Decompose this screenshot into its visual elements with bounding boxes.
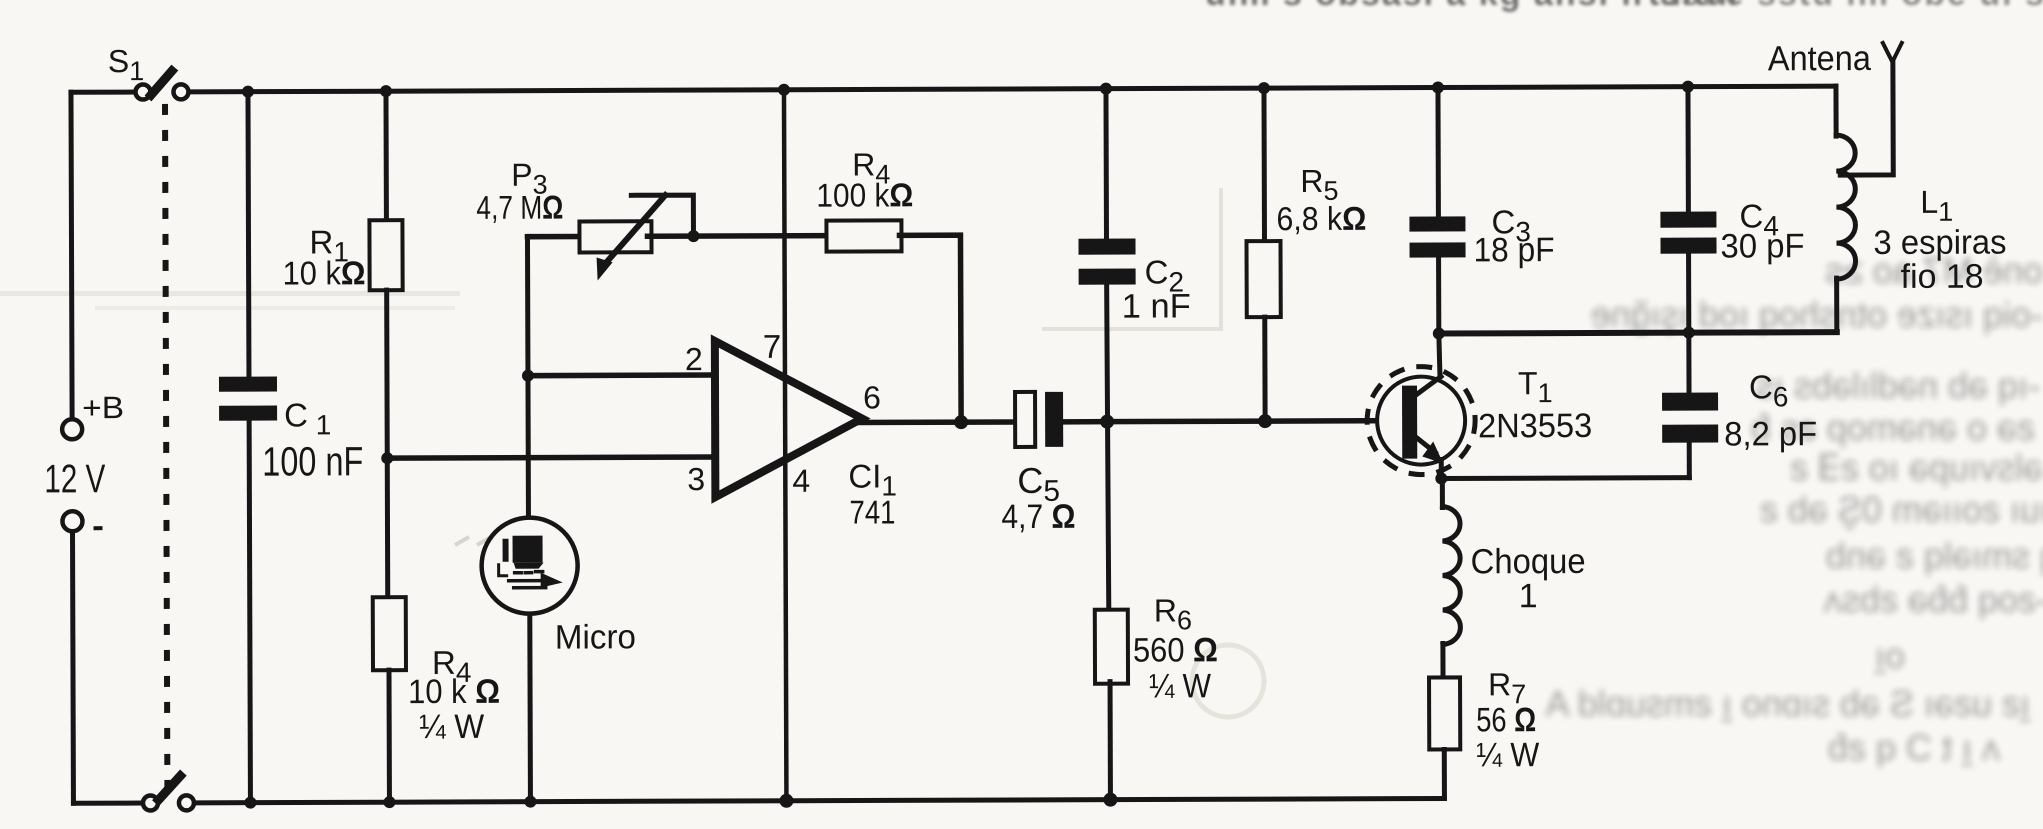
wire C3 top <box>1435 88 1440 217</box>
wire pin2 input <box>528 372 715 378</box>
svg-text:30 pF: 30 pF <box>1720 227 1804 265</box>
svg-text:C 1: C 1 <box>284 396 331 440</box>
wire C4 bottom to node <box>1686 254 1691 333</box>
svg-text:6: 6 <box>863 379 881 415</box>
svg-text:4,7 Ω: 4,7 Ω <box>1001 498 1075 536</box>
resistor R5 <box>1246 241 1280 317</box>
svg-text:560 Ω: 560 Ω <box>1133 631 1218 669</box>
potentiometer P3 arrow <box>596 195 665 280</box>
svg-text:Choque: Choque <box>1471 542 1586 581</box>
faint circle scribble <box>1192 645 1264 717</box>
svg-text:100 kΩ: 100 kΩ <box>816 176 913 213</box>
svg-text:L1: L1 <box>1920 184 1953 227</box>
wire P3 row segment a <box>527 234 583 240</box>
faint box bleed middle <box>455 188 1221 545</box>
node dot P3 wiper <box>687 230 699 242</box>
wire top rail left segment <box>71 90 135 95</box>
potentiometer P3 body <box>579 221 651 252</box>
capacitor C6 <box>1662 393 1718 443</box>
wire bottom rail left <box>73 801 141 806</box>
microphone icon <box>499 536 563 588</box>
svg-text:1: 1 <box>1519 577 1538 615</box>
wire micro bottom <box>527 615 533 802</box>
wire node to C6 <box>1686 333 1691 393</box>
wire R1 branch top <box>383 91 388 220</box>
transistor T1 emitter lead <box>1415 437 1435 453</box>
svg-text:Micro: Micro <box>555 618 636 656</box>
svg-text:7: 7 <box>763 328 781 365</box>
dashed gang line S1 <box>165 104 167 788</box>
svg-text:100 nF: 100 nF <box>262 438 363 484</box>
svg-text:3: 3 <box>687 461 705 497</box>
resistor R7 <box>1429 677 1460 749</box>
svg-text:10 k Ω: 10 k Ω <box>408 673 500 711</box>
svg-text:1 nF: 1 nF <box>1122 287 1191 325</box>
wire minus lead down <box>70 531 76 803</box>
svg-text:R6: R6 <box>1154 592 1192 635</box>
wire tank rail y338 <box>1439 332 1837 333</box>
svg-text:56 Ω: 56 Ω <box>1476 701 1536 739</box>
svg-text:C6: C6 <box>1749 368 1789 412</box>
terminal +B <box>62 419 82 439</box>
wire pin7/pin4 vertical <box>784 90 786 801</box>
wire R1 to R4 <box>387 290 388 597</box>
node dot output R5 <box>1258 414 1272 428</box>
svg-text:3 espiras: 3 espiras <box>1873 224 2006 262</box>
wire R4 bottom <box>386 670 391 802</box>
op-amp CI1 741 <box>715 341 863 498</box>
svg-text:+B: +B <box>82 390 124 425</box>
wire choke to R7 <box>1440 643 1445 677</box>
wire L1 bottom lead <box>1834 278 1839 332</box>
node dot emitter <box>1435 472 1447 484</box>
svg-text:4: 4 <box>792 463 810 499</box>
wire R7 to bottom rail <box>1442 749 1447 798</box>
resistor R4 (100k feedback) <box>826 220 901 251</box>
wire C6 bottom <box>1687 443 1692 478</box>
wire R4 to corner and down to output <box>899 235 961 422</box>
wire L1 top lead <box>1833 86 1838 136</box>
capacitor C5 <box>1015 392 1063 447</box>
svg-text:18 pF: 18 pF <box>1473 231 1554 269</box>
wire R5 top <box>1261 88 1267 241</box>
wire collector node to transistor <box>1439 333 1440 376</box>
wire C2 bottom through node to R6 <box>1107 285 1109 612</box>
antenna symbol <box>1883 43 1902 61</box>
transistor T1 emitter arrow <box>1422 441 1443 463</box>
microphone MIC circle <box>481 518 577 614</box>
wire top rail main segment <box>189 86 1836 92</box>
node dot collector <box>1433 327 1445 339</box>
svg-text:2N3553: 2N3553 <box>1478 407 1592 445</box>
wire left vertical (+B lead) <box>71 92 72 419</box>
wire P3 row segment b <box>647 233 828 239</box>
svg-text:8,2 pF: 8,2 pF <box>1724 415 1817 453</box>
inductor choke1 <box>1442 506 1460 644</box>
svg-text:fio 18: fio 18 <box>1901 258 1984 296</box>
wire emitter node to choke <box>1440 478 1445 507</box>
faint page band left <box>0 291 460 296</box>
svg-text:12 V: 12 V <box>44 457 105 501</box>
wire emitter to node <box>1439 459 1444 478</box>
switch S1 lower gang contacts <box>143 776 194 811</box>
resistor R4 (10k) <box>373 597 406 670</box>
wire antenna tap <box>1840 60 1893 175</box>
switch S1 (top contacts + lever) <box>135 71 188 100</box>
node dot output C2 <box>1100 415 1114 429</box>
capacitor C4 <box>1660 212 1716 254</box>
svg-text:¼ W: ¼ W <box>1149 667 1211 705</box>
svg-text:2: 2 <box>685 341 703 377</box>
wire C5 to C2 node <box>1063 419 1107 425</box>
wire C4 top <box>1685 87 1690 212</box>
node dot output R4 <box>954 415 968 429</box>
wire bottom rail main <box>195 798 1444 802</box>
capacitor C2 <box>1078 239 1135 285</box>
transistor T1 circle <box>1377 376 1465 464</box>
resistor R6 <box>1095 610 1128 684</box>
svg-text:6,8 kΩ: 6,8 kΩ <box>1276 200 1366 237</box>
transistor T1 dashed circle <box>1367 366 1475 474</box>
svg-text:4,7 MΩ: 4,7 MΩ <box>476 189 563 226</box>
wire P3 left vertical <box>525 237 531 518</box>
svg-text:Antena: Antena <box>1768 39 1872 78</box>
wire R5 bottom <box>1262 317 1267 421</box>
wire C2 top <box>1103 89 1109 239</box>
node dots bottom rail <box>244 793 1117 810</box>
wire C1 branch bottom <box>249 421 250 803</box>
node dot pin3 tap <box>381 452 393 464</box>
wire C3 bottom to collector node <box>1436 258 1441 334</box>
potentiometer P3 wiper loop <box>631 195 693 234</box>
node dot pin2 <box>522 370 534 382</box>
wire C1 branch top <box>245 92 251 377</box>
resistor R1 <box>369 220 402 290</box>
inductor L1 <box>1836 135 1856 279</box>
svg-text:741: 741 <box>849 493 895 530</box>
svg-text:S1: S1 <box>108 43 145 86</box>
label minus sign <box>93 526 102 530</box>
capacitor C1 <box>219 377 277 421</box>
top cut text band <box>1205 0 2043 13</box>
svg-text:¼ W: ¼ W <box>1476 736 1539 774</box>
wire R6 bottom <box>1108 682 1113 800</box>
node dot C4-C6 <box>1683 327 1695 339</box>
svg-text:¼ W: ¼ W <box>419 708 484 746</box>
wire emitter row to C6 <box>1441 475 1689 481</box>
terminal minus <box>62 511 82 531</box>
mirrored bleed text right column <box>1546 250 2043 768</box>
wire pin3 input <box>387 457 715 458</box>
node dots top rail <box>242 81 1694 98</box>
wire output node to base <box>1107 421 1402 422</box>
capacitor C3 <box>1409 216 1465 257</box>
transistor T1 collector lead <box>1415 376 1441 395</box>
transistor T1 base bar <box>1402 386 1417 459</box>
wire op-amp output <box>859 419 1016 425</box>
svg-text:10 kΩ: 10 kΩ <box>283 254 366 291</box>
svg-text:T1: T1 <box>1518 365 1553 408</box>
